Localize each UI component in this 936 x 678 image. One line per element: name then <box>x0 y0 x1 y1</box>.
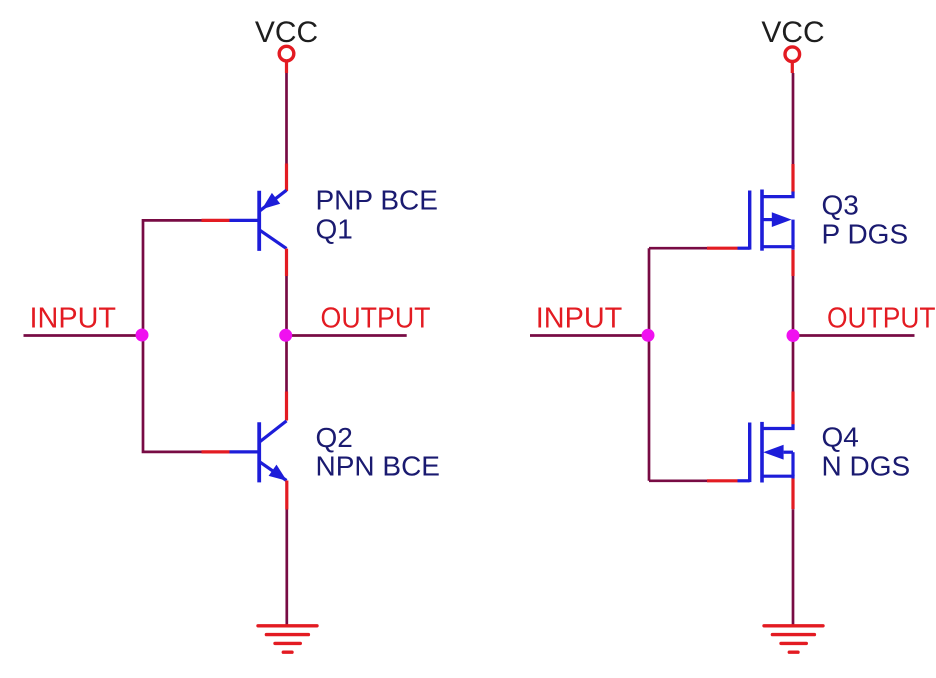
wire VCC to Q1 emitter <box>285 73 288 164</box>
wire output stub (right) <box>793 334 915 337</box>
pin Q4 gate (red) <box>707 479 738 482</box>
junction input node (right) <box>642 329 655 342</box>
svg-text:OUTPUT: OUTPUT <box>321 303 431 335</box>
svg-text:PNP BCE: PNP BCE <box>316 185 438 216</box>
pin Q4 source (red) <box>791 479 794 510</box>
wire Q2 emitter to ground <box>285 510 288 626</box>
ground symbol (right) <box>764 626 823 652</box>
svg-text:INPUT: INPUT <box>30 303 117 335</box>
svg-text:OUTPUT: OUTPUT <box>827 303 936 335</box>
pin Q1 collector (red) <box>285 249 288 276</box>
pin Q2 collector (red) <box>285 392 288 421</box>
svg-text:Q4: Q4 <box>822 422 859 453</box>
pin Q3 source (red) <box>791 250 794 276</box>
wire input stub (left) <box>24 334 144 337</box>
wire output node to Q2 collector <box>285 336 288 392</box>
svg-text:NPN BCE: NPN BCE <box>316 451 440 482</box>
VCC terminal circle (left) <box>279 46 294 61</box>
wire Q4 gate to input vertical <box>649 479 707 482</box>
wire input vertical (left) <box>143 220 202 452</box>
pin Q3 drain (red) <box>791 164 794 193</box>
pin Q3 gate (red) <box>707 247 738 250</box>
junction input node (left) <box>136 329 149 342</box>
pin Q2 emitter (red) <box>285 481 288 510</box>
svg-text:Q3: Q3 <box>822 190 859 221</box>
transistor Q4 (N-MOSFET) <box>738 422 794 483</box>
pin Q4 drain (red) <box>791 392 794 425</box>
pin Q2 base (red) <box>202 450 230 453</box>
svg-text:Q2: Q2 <box>316 422 353 453</box>
wire Q4 source to ground <box>792 509 795 625</box>
ground symbol (left) <box>258 626 317 652</box>
wire VCC to Q3 drain <box>792 73 795 164</box>
pin Q1 emitter (red) <box>285 164 288 192</box>
wire input vertical (right) <box>648 248 651 481</box>
transistor Q3 (P-MOSFET) <box>738 190 794 251</box>
svg-text:VCC: VCC <box>761 16 824 49</box>
wire Q3 gate to input vertical <box>649 247 707 250</box>
svg-text:N DGS: N DGS <box>822 451 911 482</box>
svg-text:P DGS: P DGS <box>822 219 909 250</box>
wire input stub (right) <box>530 334 649 337</box>
wire output stub (left) <box>287 334 407 337</box>
svg-text:Q1: Q1 <box>316 214 353 245</box>
wire Q3 source to output node <box>792 276 795 336</box>
svg-text:VCC: VCC <box>255 16 318 49</box>
junction output node (left) <box>279 329 292 342</box>
transistor Q1 (PNP) <box>230 190 287 251</box>
pin Q1 base (red) <box>202 219 230 222</box>
transistor Q2 (NPN) <box>230 421 287 483</box>
VCC terminal circle (right) <box>785 47 800 62</box>
svg-text:INPUT: INPUT <box>536 303 623 335</box>
wire stub VCC terminal (left, red) <box>285 62 288 73</box>
wire output node to Q4 drain <box>792 336 795 392</box>
junction output node (right) <box>787 329 800 342</box>
wire Q1 collector to output node <box>285 276 288 336</box>
wire stub VCC terminal (right, red) <box>791 62 794 73</box>
